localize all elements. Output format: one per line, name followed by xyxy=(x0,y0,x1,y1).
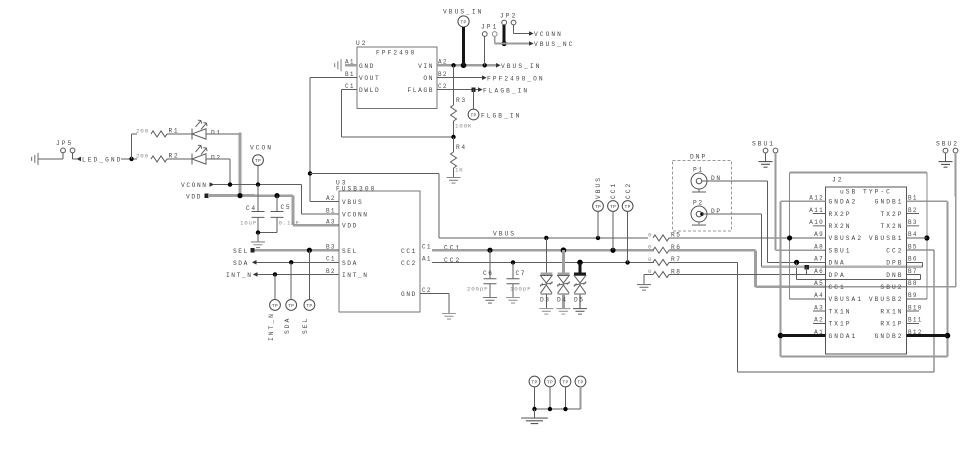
capacitor C7 100pF xyxy=(512,262,514,278)
wire A4 VBUSA1 stub xyxy=(790,298,826,300)
svg-text:uSB TYP-C: uSB TYP-C xyxy=(840,189,892,196)
svg-text:VBUSB2: VBUSB2 xyxy=(869,296,904,303)
wire TP bus to ground xyxy=(533,409,535,418)
svg-text:B1: B1 xyxy=(345,71,355,78)
wire R6 thick to CC1 A5 xyxy=(669,249,756,252)
wire B4 VBUSB1 stub xyxy=(906,237,927,239)
svg-text:FLAGB_IN: FLAGB_IN xyxy=(483,87,529,94)
svg-text:GNDB1: GNDB1 xyxy=(875,199,904,206)
svg-text:TX1N: TX1N xyxy=(828,308,851,315)
svg-text:B7: B7 xyxy=(908,268,918,275)
net label LED_GND xyxy=(76,157,81,162)
svg-text:INT_N: INT_N xyxy=(342,272,369,279)
LED D1 xyxy=(191,128,193,139)
svg-text:D1: D1 xyxy=(211,129,222,136)
net label VBUS_IN xyxy=(496,63,501,68)
wire CC1 thick rail xyxy=(432,249,654,252)
svg-text:SEL: SEL xyxy=(302,317,309,334)
svg-text:RX1P: RX1P xyxy=(880,321,903,328)
node VOUT-VBUS branch xyxy=(308,171,312,175)
svg-text:TP: TP xyxy=(460,19,466,25)
node TP bus 2 xyxy=(548,407,552,411)
ground (SBU2) xyxy=(939,162,953,168)
svg-text:10uF: 10uF xyxy=(240,219,257,226)
svg-text:INT_N: INT_N xyxy=(268,312,275,341)
testpoint GND4 (bottom) xyxy=(575,376,586,387)
svg-text:VBUS: VBUS xyxy=(595,176,602,199)
svg-text:TP: TP xyxy=(272,303,278,309)
node D4-CC1 xyxy=(561,247,567,253)
diode D3 TVS xyxy=(545,238,547,274)
J2 stub B11 xyxy=(906,322,919,324)
svg-text:VCONN: VCONN xyxy=(534,31,563,38)
svg-text:VBUS: VBUS xyxy=(493,230,516,237)
svg-text:SBU1: SBU1 xyxy=(752,141,775,148)
testpoint INT_N xyxy=(270,300,281,311)
svg-text:TX2N: TX2N xyxy=(880,223,903,230)
svg-text:TP: TP xyxy=(470,112,476,118)
svg-text:VCON: VCON xyxy=(250,144,273,151)
svg-text:SEL: SEL xyxy=(233,248,249,255)
node C5-VDD xyxy=(274,193,279,198)
wire ON to label xyxy=(437,77,482,79)
svg-text:FUSB300: FUSB300 xyxy=(336,185,376,192)
svg-text:VBUSA2: VBUSA2 xyxy=(828,235,863,242)
wire B8 row to SBU2 xyxy=(826,286,956,288)
wire bottom TP bus xyxy=(534,408,580,410)
DNP box xyxy=(672,161,731,232)
diode D5 TVS xyxy=(579,262,582,274)
svg-text:TP: TP xyxy=(306,303,312,309)
node C6-CC1 xyxy=(487,248,492,253)
svg-text:LED_GND: LED_GND xyxy=(82,156,122,163)
svg-text:VBUSA1: VBUSA1 xyxy=(828,296,863,303)
wire JP1 right stub xyxy=(494,37,496,44)
wire INT_N TP stem xyxy=(274,274,276,299)
svg-text:SDA: SDA xyxy=(284,317,291,334)
ground (LED_GND) xyxy=(32,153,38,165)
svg-text:VDD: VDD xyxy=(186,193,202,200)
chip U3 FUSB300 body xyxy=(339,191,420,312)
testpoint SEL xyxy=(304,300,315,311)
wire P2 DP to DPA xyxy=(702,213,762,215)
wire INT_N to U3 pin B2 xyxy=(257,273,339,275)
svg-text:0.1uF: 0.1uF xyxy=(279,219,300,226)
wire R8 to ground xyxy=(644,274,653,276)
svg-text:100K: 100K xyxy=(455,122,472,129)
wire SEL TP stem xyxy=(308,250,310,299)
wire ground to JP5 xyxy=(38,158,63,160)
svg-text:TP: TP xyxy=(595,204,601,210)
node TP-VCONN xyxy=(256,182,260,186)
svg-text:DNP: DNP xyxy=(690,154,707,161)
capacitor C5 0.1uF xyxy=(276,196,278,212)
wire junction up to R1 xyxy=(131,134,133,159)
ground (U2 GND sideways) xyxy=(335,59,341,71)
net label FLAGB_IN xyxy=(478,87,483,92)
wire GND bus right vertical xyxy=(946,201,948,356)
svg-text:D3: D3 xyxy=(540,297,551,304)
svg-text:SBU1: SBU1 xyxy=(828,247,851,254)
svg-text:DPB: DPB xyxy=(886,260,903,267)
svg-text:TP: TP xyxy=(255,158,261,164)
node SDA-TP xyxy=(289,260,293,264)
svg-text:D5: D5 xyxy=(574,297,585,304)
svg-text:GND: GND xyxy=(401,291,417,298)
ground (R4) xyxy=(447,177,461,183)
svg-text:C2: C2 xyxy=(438,83,448,90)
node TP bus 3 xyxy=(563,407,567,411)
J2 stub B10 xyxy=(906,310,919,312)
capacitor C6 200pF xyxy=(489,250,491,279)
svg-text:VBUS: VBUS xyxy=(342,199,363,206)
svg-text:B2: B2 xyxy=(326,268,336,275)
node DP-DPA jog xyxy=(804,265,808,269)
svg-text:TP: TP xyxy=(288,303,294,309)
svg-text:SEL: SEL xyxy=(342,248,358,255)
svg-text:GNDA2: GNDA2 xyxy=(829,199,858,206)
node FLAGB-TP xyxy=(471,87,475,91)
node VBUS_NC xyxy=(502,41,507,46)
op-amp U2 FPF2498 body xyxy=(357,47,437,109)
svg-text:A2: A2 xyxy=(814,317,824,324)
wire JP2 left black to VBUS_NC xyxy=(503,25,506,44)
ground (SBU1) xyxy=(759,162,773,168)
svg-text:R3: R3 xyxy=(456,97,467,104)
J2 stub B3 xyxy=(906,225,919,227)
wire GND B1 to bus xyxy=(906,200,947,202)
svg-text:A11: A11 xyxy=(809,207,824,214)
wire R5 to J2 A9 xyxy=(669,237,826,239)
svg-text:P2: P2 xyxy=(693,200,704,207)
wire VCONN to U3 pin B1 xyxy=(301,185,303,214)
svg-text:C2: C2 xyxy=(422,287,432,294)
wire DP to DNB B6 xyxy=(921,262,923,267)
node VBUSA2 xyxy=(787,235,792,240)
svg-text:RX1N: RX1N xyxy=(880,308,903,315)
svg-text:C1: C1 xyxy=(422,243,432,250)
svg-text:B1: B1 xyxy=(326,207,336,214)
svg-text:A1: A1 xyxy=(422,256,432,263)
wire D2 to VCONN xyxy=(206,158,230,160)
svg-text:VOUT: VOUT xyxy=(359,75,380,82)
wire B9 VBUSB2 stub xyxy=(906,298,927,300)
svg-text:C1: C1 xyxy=(345,83,355,90)
net label VCONN (top) xyxy=(529,31,534,36)
wire GND bus bottom xyxy=(780,356,947,358)
wire VBUS rail xyxy=(439,237,648,239)
testpoint GND2 (bottom) xyxy=(545,376,556,387)
ground (C6) xyxy=(483,297,497,303)
wire GND A12 to bus xyxy=(781,200,826,202)
J2 stub A2 xyxy=(813,322,826,324)
wire SDA TP stem xyxy=(290,262,292,299)
svg-text:0: 0 xyxy=(648,256,652,263)
svg-text:VBUSB1: VBUSB1 xyxy=(869,235,904,242)
wire C5 to C4 ground node xyxy=(258,232,277,234)
wire R7 CC2 loop xyxy=(669,261,737,263)
svg-text:TP: TP xyxy=(562,379,568,385)
svg-text:TP: TP xyxy=(531,379,537,385)
svg-text:RX2N: RX2N xyxy=(828,223,851,230)
svg-text:SDA: SDA xyxy=(342,260,358,267)
svg-text:ON: ON xyxy=(423,75,434,82)
svg-text:TP: TP xyxy=(610,204,616,210)
svg-text:VDD: VDD xyxy=(342,223,358,230)
testpoint FLGB_IN xyxy=(468,109,479,120)
svg-text:B2: B2 xyxy=(438,71,448,78)
ground (C4/C5) xyxy=(257,233,259,242)
svg-text:TP: TP xyxy=(625,204,631,210)
svg-text:DNA: DNA xyxy=(828,260,845,267)
svg-text:DWLD: DWLD xyxy=(359,87,380,94)
svg-text:VBUS_NC: VBUS_NC xyxy=(534,41,574,48)
svg-text:SDA: SDA xyxy=(233,260,249,267)
wire JP5 to LED_GND node xyxy=(72,153,74,159)
svg-text:C4: C4 xyxy=(246,205,257,212)
LED D2 xyxy=(191,153,193,164)
node TP bus 1 xyxy=(532,407,536,411)
svg-text:U2: U2 xyxy=(356,40,368,47)
svg-text:0: 0 xyxy=(648,231,652,238)
net label VBUS_NC xyxy=(529,41,534,46)
svg-text:R4: R4 xyxy=(456,144,467,151)
wire FLAGB to label xyxy=(437,89,478,91)
wire B5 CC2 stub xyxy=(906,249,921,251)
node TPCC2-CC2 xyxy=(625,260,629,264)
svg-text:1K: 1K xyxy=(455,166,464,173)
svg-text:B10: B10 xyxy=(908,304,923,311)
svg-text:A4: A4 xyxy=(814,292,824,299)
svg-text:CC1: CC1 xyxy=(828,284,845,291)
svg-text:B3: B3 xyxy=(326,244,336,251)
wire VDD rail thick xyxy=(208,194,293,197)
svg-text:CC1: CC1 xyxy=(610,182,617,199)
wire GND bus left vertical xyxy=(779,201,781,356)
svg-text:C6: C6 xyxy=(483,270,494,277)
svg-text:A3: A3 xyxy=(814,304,824,311)
connector J2 USB TYP-C body xyxy=(826,187,907,354)
wire VOUT to U3 VBUS xyxy=(310,77,357,79)
node D2-VCONN xyxy=(228,182,232,186)
svg-text:200: 200 xyxy=(136,128,149,135)
diode D4 TVS xyxy=(562,250,565,274)
svg-text:200pF: 200pF xyxy=(467,285,488,292)
svg-text:B5: B5 xyxy=(908,243,918,250)
J2 stub A10 xyxy=(813,225,826,227)
svg-text:D4: D4 xyxy=(557,297,568,304)
net label FPF2498_ON xyxy=(482,75,487,80)
J2 stub A11 xyxy=(813,213,826,215)
node D3-VBUS xyxy=(544,236,548,240)
svg-text:VCONN: VCONN xyxy=(181,182,208,189)
wire U3 GND pin to ground xyxy=(420,292,449,294)
node GNDB2 xyxy=(945,333,951,339)
svg-text:A5: A5 xyxy=(814,280,824,287)
svg-text:A3: A3 xyxy=(326,218,336,225)
node GNDA1 xyxy=(778,333,784,339)
wire DN under J2 to DNB xyxy=(796,262,798,279)
svg-text:A7: A7 xyxy=(814,256,824,263)
wire SBU1 left to ground xyxy=(765,153,767,161)
node cap ground xyxy=(256,230,260,234)
node D5-CC2 xyxy=(577,260,583,266)
testpoint GND3 (bottom) xyxy=(560,376,571,387)
svg-text:JP5: JP5 xyxy=(56,140,73,147)
svg-text:B2: B2 xyxy=(908,207,918,214)
testpoint GND1 (bottom) xyxy=(529,376,540,387)
wire VBUS bridge top xyxy=(790,171,927,173)
wire VBUS branch to connector xyxy=(310,172,439,174)
svg-text:D2: D2 xyxy=(211,154,222,161)
svg-text:DNB: DNB xyxy=(886,272,903,279)
svg-text:INT_N: INT_N xyxy=(226,272,253,279)
ground (U3 GND) xyxy=(442,313,456,319)
svg-text:A8: A8 xyxy=(814,243,824,250)
wire SDA to U3 pin C1 xyxy=(256,261,339,263)
wire FLAGB TP stem xyxy=(473,90,475,110)
wire VDD to U3 pin A3 xyxy=(292,196,295,226)
wire GNDB2 black xyxy=(906,334,947,337)
svg-text:B4: B4 xyxy=(908,231,918,238)
svg-text:GNDA1: GNDA1 xyxy=(828,333,857,340)
J2 stub A3 xyxy=(813,310,826,312)
svg-text:J2: J2 xyxy=(832,177,844,184)
wire VIN thick to VBUS_IN xyxy=(437,64,496,67)
wire VBUS bridge left vertical A9-A4 xyxy=(789,172,791,299)
svg-text:VBUS_IN: VBUS_IN xyxy=(443,8,483,15)
wire R8/DPA rail to J2 A6 xyxy=(669,274,826,276)
svg-text:DPA: DPA xyxy=(828,272,845,279)
wire JP1 left to VIN xyxy=(484,36,486,65)
svg-text:FLGB_IN: FLGB_IN xyxy=(481,112,521,119)
svg-text:JP1: JP1 xyxy=(481,23,498,30)
svg-text:VCONN: VCONN xyxy=(342,211,369,218)
wire CC2 rail xyxy=(432,261,654,263)
wire JP2 right to VCONN label xyxy=(513,25,515,34)
J2 stub B2 xyxy=(906,213,919,215)
wire DP thick rail xyxy=(762,266,923,269)
svg-text:RX2P: RX2P xyxy=(829,211,852,218)
svg-text:A2: A2 xyxy=(326,195,336,202)
wire P1 DN to DNA xyxy=(702,180,768,182)
svg-text:CC2: CC2 xyxy=(886,247,903,254)
svg-text:VBUS_IN: VBUS_IN xyxy=(501,63,541,70)
svg-text:C1: C1 xyxy=(326,256,336,263)
wire DWLD to divider xyxy=(342,89,357,91)
svg-text:C5: C5 xyxy=(281,204,292,211)
node R3-R4-DWLD xyxy=(451,135,455,139)
node LED_GND junction xyxy=(129,157,133,161)
svg-text:TX1P: TX1P xyxy=(828,321,851,328)
wire SEL thick to U3 pin B3 xyxy=(254,249,339,252)
svg-text:B6: B6 xyxy=(908,256,918,263)
svg-text:CC2: CC2 xyxy=(401,260,417,267)
svg-text:SBU2: SBU2 xyxy=(880,284,903,291)
svg-text:JP2: JP2 xyxy=(500,13,517,20)
ground (bottom TPs) xyxy=(521,418,548,424)
svg-text:FLAGB: FLAGB xyxy=(407,87,434,94)
svg-text:P1: P1 xyxy=(693,167,704,174)
node DNA branch xyxy=(794,260,799,265)
svg-text:A9: A9 xyxy=(814,231,824,238)
wire VCON TP down to VCONN rail xyxy=(257,165,259,184)
node C7-CC2 xyxy=(511,260,515,264)
wire LED_GND to junction xyxy=(121,158,137,160)
svg-text:B11: B11 xyxy=(908,317,923,324)
svg-text:VIN: VIN xyxy=(418,63,434,70)
node D1-VDD xyxy=(237,193,242,198)
wire D1 to VDD xyxy=(206,133,240,135)
node VBUSB1 xyxy=(924,235,929,240)
wire SBU1 right to J2 A8 xyxy=(774,153,776,250)
ground (C7) xyxy=(506,298,520,304)
svg-text:CC2: CC2 xyxy=(625,182,632,199)
node TPVBUS-VBUS xyxy=(596,236,600,240)
wire GNDA1 black xyxy=(780,334,825,337)
wire VCONN rail xyxy=(213,184,302,186)
svg-text:TX2P: TX2P xyxy=(880,211,903,218)
svg-text:B8: B8 xyxy=(908,280,918,287)
node VIN-R3 xyxy=(451,63,455,67)
svg-text:A6: A6 xyxy=(814,268,824,275)
wire VBUS bridge right vertical B4-B9 xyxy=(926,172,928,299)
node VIN-JP1 xyxy=(483,63,487,67)
svg-text:B9: B9 xyxy=(908,292,918,299)
node SEL-TP xyxy=(307,248,312,253)
wire SBU2 right to J2 B8 xyxy=(954,153,956,287)
svg-text:GND: GND xyxy=(359,63,375,70)
svg-text:TP: TP xyxy=(547,379,553,385)
node VIN-TP xyxy=(461,62,467,68)
svg-text:0: 0 xyxy=(648,244,652,251)
node INT_N-TP xyxy=(273,272,277,276)
wire VBUS_IN TP stem black xyxy=(462,27,465,65)
svg-text:SBU2: SBU2 xyxy=(936,141,959,148)
svg-text:200: 200 xyxy=(136,153,149,160)
svg-text:FPF2498: FPF2498 xyxy=(376,49,416,56)
svg-text:GNDB2: GNDB2 xyxy=(875,333,904,340)
node TPCC1-CC1 xyxy=(610,248,615,253)
svg-text:FPF2498_ON: FPF2498_ON xyxy=(487,75,545,82)
capacitor C4 10uF xyxy=(257,185,259,212)
wire SBU2 left to ground xyxy=(945,153,947,161)
ground (R8) xyxy=(637,285,651,291)
svg-text:CC1: CC1 xyxy=(401,248,417,255)
svg-text:C7: C7 xyxy=(515,270,526,277)
testpoint SDA xyxy=(286,300,297,311)
svg-text:TP: TP xyxy=(577,379,583,385)
